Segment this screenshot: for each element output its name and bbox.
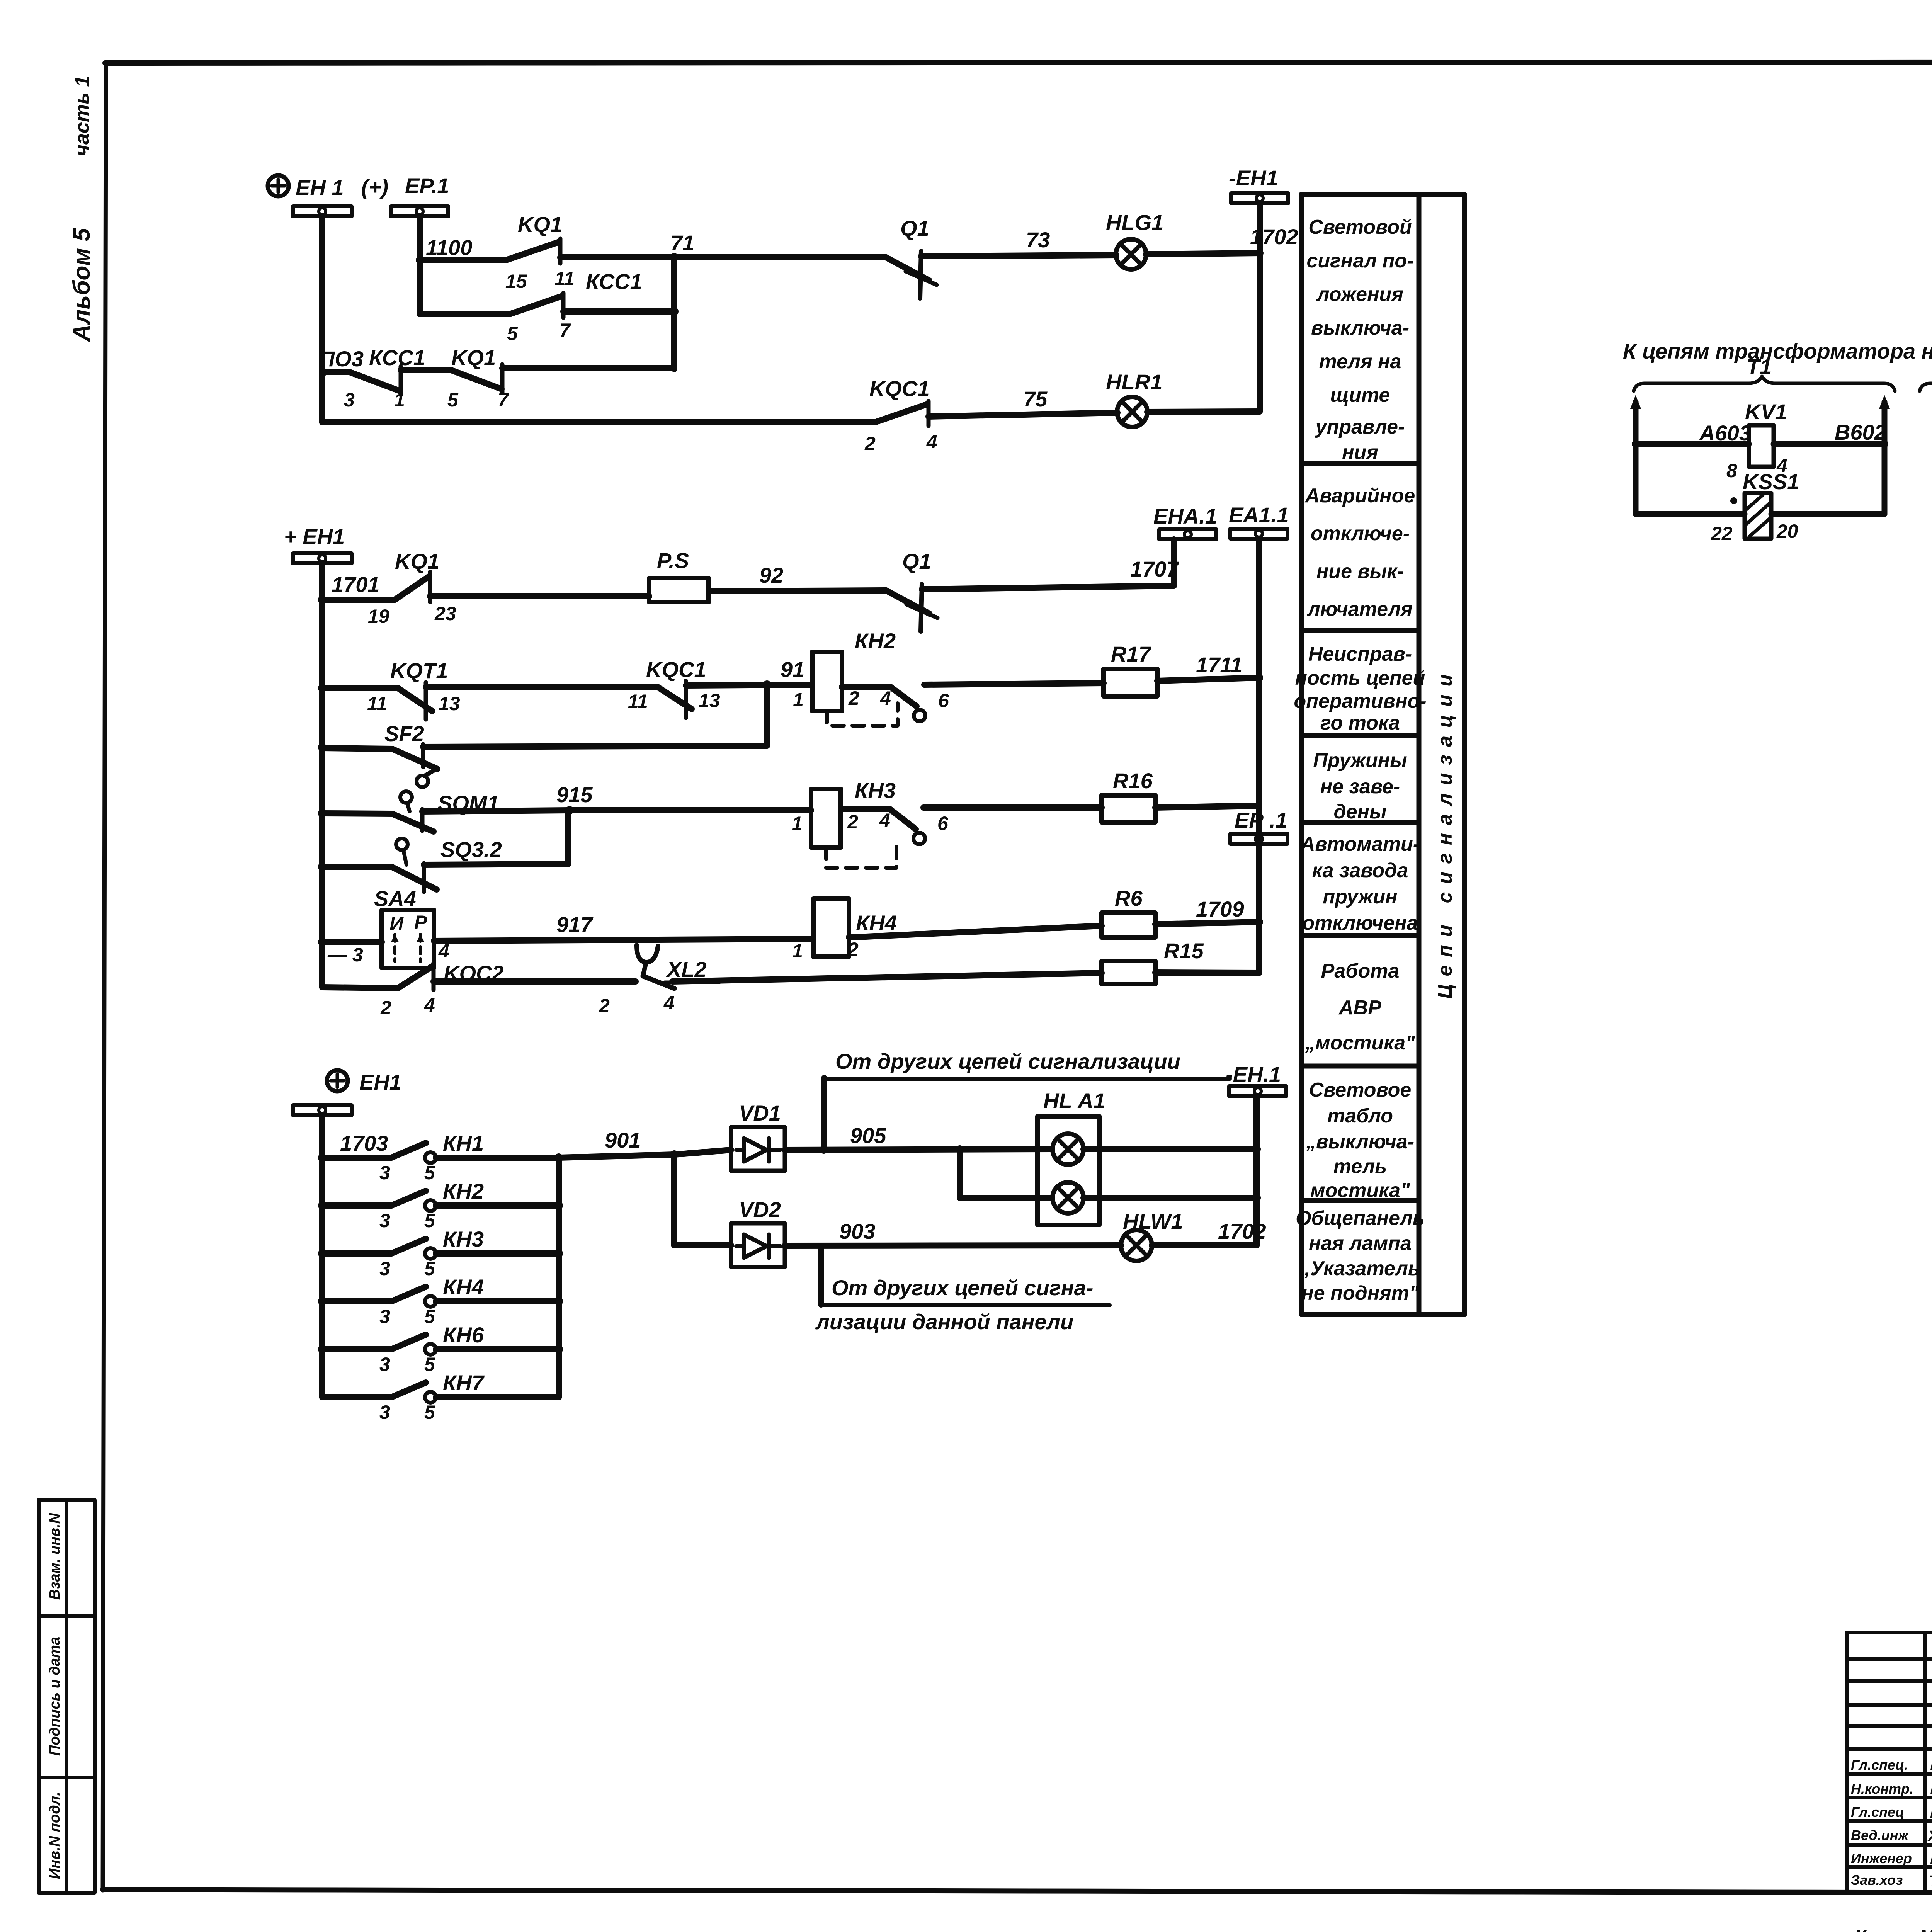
breaker contact SF2 bbox=[384, 721, 437, 787]
svg-text:22: 22 bbox=[1711, 523, 1733, 544]
svg-text:5: 5 bbox=[447, 389, 459, 411]
terminal EP.1 (plus) bbox=[361, 173, 449, 199]
contact KQ1 (19-23) rowA bbox=[368, 549, 456, 627]
node rowD left bbox=[318, 809, 327, 818]
svg-text:23: 23 bbox=[434, 603, 456, 624]
wire row1 to node 71 bbox=[560, 254, 674, 260]
svg-text:KQT1: KQT1 bbox=[390, 658, 448, 683]
svg-text:И: И bbox=[389, 913, 404, 935]
svg-text:Р: Р bbox=[414, 912, 427, 933]
svg-text:3: 3 bbox=[379, 1306, 390, 1327]
node signature table names bbox=[1927, 1756, 1932, 1889]
busbar -EH1 bbox=[1229, 166, 1288, 203]
svg-text:KQ1: KQ1 bbox=[395, 549, 439, 573]
svg-text:лизации данной панели: лизации данной панели bbox=[815, 1310, 1073, 1334]
wire left vertical bottom section bbox=[319, 1115, 325, 1397]
svg-text:KQC1: KQC1 bbox=[869, 376, 930, 401]
relay coil KH3 bbox=[792, 778, 896, 847]
svg-text:KQ1: KQ1 bbox=[451, 345, 496, 370]
svg-text:Вед.инж: Вед.инж bbox=[1851, 1827, 1909, 1843]
wire rowC to node91 bbox=[423, 685, 767, 747]
node: cell text 4 springs bbox=[1313, 749, 1407, 823]
svg-text:КСС1: КСС1 bbox=[369, 345, 425, 370]
lamp box HLA1 bbox=[1037, 1088, 1105, 1225]
terminal EH1 bottom (plus) bbox=[327, 1070, 401, 1094]
svg-text:„мостика": „мостика" bbox=[1305, 1032, 1415, 1054]
node: cell text 3 dc fault bbox=[1294, 643, 1426, 734]
svg-text:КН7: КН7 bbox=[443, 1371, 485, 1395]
svg-text:Хрупчикова: Хрупчикова bbox=[1927, 1828, 1932, 1844]
contact KH2 (4-6) bbox=[880, 687, 949, 721]
wire 903 bbox=[785, 1219, 1121, 1304]
wire right vertical -EH1 bbox=[1257, 203, 1263, 412]
svg-text:пружин: пружин bbox=[1323, 886, 1397, 908]
svg-text:VD2: VD2 bbox=[739, 1197, 781, 1222]
lamp HLA1 upper bbox=[1053, 1134, 1083, 1165]
svg-text:КСС1: КСС1 bbox=[586, 269, 642, 294]
relay coil KH4 bbox=[792, 899, 897, 962]
svg-text:Аварийное: Аварийное bbox=[1304, 485, 1415, 507]
svg-text:1: 1 bbox=[394, 389, 405, 411]
svg-text:2: 2 bbox=[847, 811, 858, 833]
note: header to voltage transformer circuits bbox=[1623, 328, 1932, 363]
svg-text:3: 3 bbox=[379, 1258, 390, 1279]
svg-text:7: 7 bbox=[498, 389, 509, 411]
wire rowG mid bbox=[434, 978, 636, 985]
pushbutton KH1 bbox=[322, 1131, 559, 1184]
wire T1 top right bbox=[1774, 420, 1888, 448]
wire 1709 bbox=[1155, 897, 1263, 926]
wire vertical node71 down bbox=[671, 257, 677, 369]
svg-text:1: 1 bbox=[792, 813, 803, 834]
svg-text:АВР: АВР bbox=[1338, 997, 1381, 1019]
busbar EHA.1 bbox=[1153, 504, 1217, 539]
svg-text:(+): (+) bbox=[361, 175, 388, 199]
drawing frame bottom border bbox=[103, 1889, 1932, 1894]
note: from other signal circuits bbox=[823, 1049, 1230, 1079]
svg-text:Цепи сигнализации: Цепи сигнализации bbox=[1434, 674, 1456, 999]
svg-text:VD1: VD1 bbox=[739, 1101, 781, 1125]
wire 73 bbox=[921, 228, 1116, 256]
svg-text:13: 13 bbox=[439, 693, 460, 714]
svg-text:R15: R15 bbox=[1164, 939, 1204, 963]
svg-text:KQ1: KQ1 bbox=[518, 212, 562, 236]
svg-text:ЕНА.1: ЕНА.1 bbox=[1153, 504, 1217, 528]
wire collector vertical bbox=[556, 1158, 562, 1397]
wire T1 top bbox=[1636, 441, 1749, 447]
svg-text:выключа-: выключа- bbox=[1311, 317, 1409, 339]
svg-text:ние вык-: ние вык- bbox=[1316, 560, 1404, 583]
svg-text:ЕА1.1: ЕА1.1 bbox=[1229, 503, 1289, 527]
travel switch SQM1 bbox=[392, 791, 499, 832]
busbar +EH1 bbox=[293, 553, 352, 563]
wire node71 to Q1 bbox=[674, 254, 886, 260]
node: cell text 6 AVR work bbox=[1305, 960, 1415, 1054]
terminal EH1 (plus) bbox=[268, 175, 344, 200]
busbar EH1 bbox=[293, 206, 352, 216]
svg-text:1702: 1702 bbox=[1218, 1219, 1266, 1243]
svg-text:сигнал по-: сигнал по- bbox=[1306, 250, 1413, 272]
wire row4 long bbox=[322, 419, 875, 425]
svg-text:HLR1: HLR1 bbox=[1106, 370, 1162, 394]
svg-text:Работа: Работа bbox=[1321, 960, 1400, 982]
wire T1 bottom bbox=[1636, 511, 1745, 517]
wire rowG right bbox=[672, 973, 1102, 981]
busbar EH1 bottom bbox=[293, 1105, 352, 1115]
svg-text:КН2: КН2 bbox=[855, 629, 896, 653]
drawing frame left border bbox=[103, 63, 106, 1890]
svg-text:Инв.N подл.: Инв.N подл. bbox=[47, 1792, 63, 1879]
svg-text:ПО3: ПО3 bbox=[319, 347, 364, 371]
mechanical link KH2 dashed bbox=[827, 703, 898, 726]
svg-text:От других цепей сигнализации: От других цепей сигнализации bbox=[835, 1049, 1180, 1073]
svg-text:Иванова: Иванова bbox=[1930, 1849, 1932, 1867]
node T1 group brace bbox=[1634, 354, 1895, 391]
wire 75 bbox=[929, 387, 1117, 417]
svg-text:20: 20 bbox=[1776, 520, 1798, 542]
svg-text:— 3: — 3 bbox=[327, 944, 363, 966]
wire lamp1 out bbox=[1083, 1145, 1261, 1153]
resistor R16 bbox=[1102, 769, 1155, 822]
node rowB left bbox=[318, 684, 327, 692]
svg-text:1703: 1703 bbox=[340, 1131, 388, 1155]
svg-text:Световое: Световое bbox=[1309, 1079, 1412, 1101]
svg-text:От других цепей сигна-: От других цепей сигна- bbox=[832, 1276, 1093, 1300]
svg-text:4: 4 bbox=[926, 431, 937, 452]
wire 905 bbox=[785, 1123, 1051, 1154]
svg-text:„выключа-: „выключа- bbox=[1306, 1131, 1414, 1153]
node: cell text 2 emergency trip bbox=[1304, 485, 1415, 621]
wire row3 to vertical bbox=[502, 365, 674, 371]
svg-text:5: 5 bbox=[424, 1306, 435, 1327]
node rowE left bbox=[318, 862, 327, 871]
svg-text:Автомати-: Автомати- bbox=[1300, 833, 1420, 855]
wire row2 from 1100 bbox=[420, 260, 510, 314]
svg-text:2: 2 bbox=[864, 433, 876, 454]
svg-text:KQC1: KQC1 bbox=[646, 657, 706, 682]
svg-text:ЕР.1: ЕР.1 bbox=[405, 173, 449, 198]
relay coil KV1 bbox=[1699, 400, 1787, 481]
wire rowD to EA1.1 vertical bbox=[1155, 806, 1259, 808]
key switch SA4 bbox=[327, 886, 449, 968]
svg-text:R16: R16 bbox=[1113, 769, 1153, 793]
lamp HLA1 lower bbox=[1053, 1182, 1083, 1213]
svg-text:ЕН1: ЕН1 bbox=[359, 1070, 401, 1094]
node T2 group brace bbox=[1920, 352, 1932, 391]
wire rowB start bbox=[322, 685, 398, 691]
svg-text:К цепям трансформатора напряже: К цепям трансформатора напряжения на вво… bbox=[1623, 339, 1932, 363]
wire 92 bbox=[709, 563, 886, 591]
svg-text:2: 2 bbox=[380, 997, 391, 1019]
svg-text:1711: 1711 bbox=[1196, 653, 1242, 677]
relay coil KH2 bbox=[793, 629, 896, 711]
wire lamp2 out bbox=[1083, 1194, 1261, 1202]
svg-text:8: 8 bbox=[1726, 460, 1737, 481]
svg-text:3: 3 bbox=[379, 1354, 390, 1375]
svg-text:Н.контр.: Н.контр. bbox=[1851, 1781, 1913, 1797]
resistor R6 bbox=[1102, 886, 1155, 937]
wire row3 mid bbox=[401, 367, 451, 373]
svg-text:мостика": мостика" bbox=[1310, 1179, 1410, 1202]
relay KSS1 left hatched bbox=[1711, 469, 1799, 544]
wire rowD to node 915 bbox=[422, 810, 570, 811]
svg-text:2: 2 bbox=[599, 995, 610, 1017]
busbar -EH.1 bottom bbox=[1226, 1062, 1286, 1096]
svg-text:11: 11 bbox=[628, 690, 648, 712]
svg-text:Т1: Т1 bbox=[1747, 354, 1772, 379]
wire rowF right bbox=[849, 926, 1102, 937]
svg-text:часть 1: часть 1 bbox=[71, 76, 94, 156]
node signature table roles bbox=[1851, 1757, 1913, 1888]
pushbutton KH3 bbox=[318, 1227, 559, 1279]
wire 1702 row1 bbox=[1146, 224, 1298, 254]
wire down to VD2 bbox=[671, 1155, 677, 1245]
svg-text:917: 917 bbox=[556, 912, 594, 937]
svg-text:71: 71 bbox=[670, 231, 694, 255]
svg-text:5: 5 bbox=[424, 1354, 435, 1375]
pushbutton KH7 bbox=[322, 1371, 559, 1423]
svg-text:3: 3 bbox=[379, 1401, 390, 1423]
svg-text:Взам. инв.N: Взам. инв.N bbox=[47, 1512, 63, 1600]
connector XL2 bbox=[599, 945, 719, 1017]
svg-text:75: 75 bbox=[1023, 387, 1048, 411]
contact KH3 (4-6) bbox=[879, 809, 949, 844]
contact KQC1 (2-4) row4 bbox=[864, 376, 937, 454]
svg-text:13: 13 bbox=[699, 690, 720, 711]
node 1701 bbox=[318, 572, 380, 604]
wire rowF start bbox=[322, 939, 382, 945]
svg-text:А603: А603 bbox=[1699, 421, 1751, 445]
svg-text:управле-: управле- bbox=[1315, 416, 1405, 438]
svg-text:903: 903 bbox=[839, 1219, 875, 1243]
svg-text:4: 4 bbox=[424, 994, 435, 1016]
svg-text:XL2: XL2 bbox=[666, 957, 707, 981]
svg-text:не поднят": не поднят" bbox=[1301, 1282, 1419, 1304]
node rowC left bbox=[318, 743, 327, 752]
wire rowE to node 915 bbox=[424, 810, 568, 865]
wire row4 to -EH1 bbox=[1147, 412, 1260, 412]
svg-text:4: 4 bbox=[879, 810, 890, 831]
node: cell text 7 light board bbox=[1306, 1079, 1414, 1202]
node 1100 bbox=[416, 235, 472, 264]
svg-text:не заве-: не заве- bbox=[1320, 776, 1400, 798]
wire row2 to vertical bbox=[563, 308, 674, 315]
svg-text:91: 91 bbox=[781, 657, 804, 682]
svg-text:2: 2 bbox=[847, 939, 859, 960]
svg-text:ЕН 1: ЕН 1 bbox=[296, 175, 344, 200]
svg-text:5: 5 bbox=[424, 1258, 435, 1279]
svg-text:КН1: КН1 bbox=[443, 1131, 484, 1155]
svg-text:HLW1: HLW1 bbox=[1123, 1209, 1183, 1233]
wire left vertical middle section bbox=[319, 563, 325, 987]
svg-text:1100: 1100 bbox=[426, 235, 472, 260]
signal table outer box bbox=[1301, 194, 1464, 1315]
svg-text:табло: табло bbox=[1327, 1105, 1393, 1127]
svg-text:Пружины: Пружины bbox=[1313, 749, 1407, 772]
node 915 bbox=[556, 782, 593, 815]
svg-text:915: 915 bbox=[556, 782, 593, 807]
contact KCC1 (3-1) row3 bbox=[344, 345, 425, 411]
wire EH1 left vertical bbox=[322, 216, 875, 422]
node 91 bbox=[763, 657, 804, 689]
lamp HLG1 bbox=[1106, 210, 1163, 269]
svg-text:2: 2 bbox=[848, 687, 859, 709]
svg-text:4: 4 bbox=[880, 687, 891, 709]
breaker contact Q1 row1 bbox=[886, 216, 937, 298]
svg-text:11: 11 bbox=[554, 268, 575, 289]
wire rowD to KH3 bbox=[570, 807, 811, 813]
busbar EP.1 bbox=[391, 206, 448, 216]
wire rowB right bbox=[924, 683, 1104, 685]
svg-text:7: 7 bbox=[560, 320, 571, 341]
svg-text:ложения: ложения bbox=[1316, 283, 1403, 306]
svg-text:Альбом 5: Альбом 5 bbox=[68, 227, 95, 342]
wire EP.1 down to 1100 bbox=[420, 216, 506, 260]
svg-text:KSS1: KSS1 bbox=[1743, 469, 1799, 494]
svg-text:Никитин: Никитин bbox=[1930, 1756, 1932, 1774]
wire rowA to RS bbox=[430, 593, 649, 599]
svg-text:5: 5 bbox=[424, 1401, 435, 1423]
svg-text:го тока: го тока bbox=[1320, 712, 1400, 734]
lamp HLW1 bbox=[1121, 1209, 1183, 1261]
svg-text:3: 3 bbox=[344, 389, 355, 411]
pushbutton KH6 bbox=[318, 1323, 559, 1375]
resistor R17 bbox=[1104, 642, 1157, 696]
resistor RS bbox=[649, 548, 709, 602]
breaker contact Q1 rowA bbox=[886, 549, 937, 631]
svg-text:Инженер: Инженер bbox=[1851, 1850, 1912, 1866]
svg-text:3: 3 bbox=[379, 1210, 390, 1231]
pushbutton KH2 bbox=[318, 1179, 559, 1231]
travel switch SQ3.2 bbox=[391, 837, 502, 892]
svg-text:+ ЕН1: + ЕН1 bbox=[284, 524, 345, 549]
svg-text:ЕР .1: ЕР .1 bbox=[1235, 808, 1287, 832]
note: from other circuits of this panel bbox=[815, 1276, 1110, 1334]
mechanical link KH3 dashed bbox=[826, 839, 896, 868]
svg-text:Тимофеева: Тимофеева bbox=[1929, 1873, 1932, 1889]
svg-text:ная лампа: ная лампа bbox=[1309, 1232, 1412, 1255]
wire 901 bbox=[559, 1128, 679, 1159]
svg-text:ка завода: ка завода bbox=[1312, 859, 1408, 882]
svg-text:6: 6 bbox=[938, 690, 949, 711]
svg-text:Общепанель: Общепанель bbox=[1296, 1207, 1425, 1230]
diode VD1 bbox=[731, 1101, 785, 1171]
drawing frame top border bbox=[105, 62, 1932, 63]
svg-text:Копиз. Молл: Копиз. Молл bbox=[1855, 1927, 1932, 1932]
contact KQC1 (11-13) rowB bbox=[628, 657, 720, 718]
svg-text:901: 901 bbox=[605, 1128, 641, 1152]
svg-text:В602: В602 bbox=[1835, 420, 1886, 444]
svg-text:5: 5 bbox=[424, 1162, 435, 1184]
svg-text:лючателя: лючателя bbox=[1306, 598, 1412, 621]
terminal +EH1 bbox=[284, 524, 345, 549]
wire rowD right bbox=[923, 804, 1102, 811]
wire rowE start bbox=[322, 864, 391, 870]
svg-text:15: 15 bbox=[505, 270, 527, 292]
contact KCC1 (5-7) row2 bbox=[507, 269, 642, 344]
wire rowB mid bbox=[426, 684, 658, 690]
busbar EP.1 right bbox=[1230, 808, 1287, 844]
svg-text:Световой: Световой bbox=[1308, 216, 1412, 238]
wire T1 left vertical with arrow bbox=[1630, 395, 1641, 514]
svg-text:3: 3 bbox=[379, 1162, 390, 1184]
wire R15 to EA1.1 vertical bbox=[1155, 973, 1259, 973]
svg-text:отключена: отключена bbox=[1302, 912, 1418, 934]
svg-text:КН3: КН3 bbox=[443, 1227, 484, 1251]
svg-text:HLG1: HLG1 bbox=[1106, 210, 1163, 235]
contact KQT1 (11-13) rowB bbox=[367, 658, 460, 719]
svg-text:1707: 1707 bbox=[1130, 557, 1179, 581]
svg-text:тель: тель bbox=[1333, 1155, 1387, 1178]
side label: album text bbox=[68, 76, 95, 342]
node PO3 bbox=[319, 347, 364, 376]
svg-text:теля на: теля на bbox=[1319, 350, 1401, 373]
svg-text:Горелик: Горелик bbox=[1930, 1803, 1932, 1821]
svg-text:HL А1: HL А1 bbox=[1043, 1088, 1105, 1113]
contact KQC2 (2-4) rowG bbox=[380, 961, 504, 1019]
node: cell text 8 panel lamp bbox=[1296, 1207, 1425, 1304]
wire KH3 out bbox=[841, 806, 890, 812]
svg-text:1709: 1709 bbox=[1196, 897, 1244, 921]
svg-text:дены: дены bbox=[1334, 801, 1387, 823]
svg-text:отключе-: отключе- bbox=[1311, 522, 1410, 545]
pushbutton KH4 bbox=[318, 1275, 559, 1327]
svg-text:КН3: КН3 bbox=[855, 778, 896, 803]
svg-text:92: 92 bbox=[759, 563, 783, 587]
wire rowD start bbox=[322, 813, 392, 814]
resistor R15 bbox=[1102, 939, 1204, 984]
svg-text:-ЕН1: -ЕН1 bbox=[1229, 166, 1278, 190]
svg-text:-ЕН.1: -ЕН.1 bbox=[1226, 1062, 1281, 1087]
wire right vertical -EH.1 bbox=[1253, 1096, 1260, 1245]
svg-text:4: 4 bbox=[663, 992, 675, 1014]
node 1703 bbox=[318, 1131, 388, 1162]
svg-text:КН2: КН2 bbox=[443, 1179, 484, 1203]
busbar EA1.1 bbox=[1229, 503, 1289, 539]
svg-text:Q1: Q1 bbox=[902, 549, 931, 573]
wire 1711 bbox=[1157, 653, 1263, 682]
node rowF left bbox=[318, 938, 327, 946]
svg-text:КН4: КН4 bbox=[856, 911, 897, 935]
svg-text:73: 73 bbox=[1026, 228, 1050, 252]
contact KQ1 (5-7) row3 bbox=[447, 345, 509, 411]
svg-text:KV1: KV1 bbox=[1745, 400, 1787, 424]
svg-text:1701: 1701 bbox=[332, 572, 380, 597]
svg-text:КН4: КН4 bbox=[443, 1275, 484, 1299]
svg-text:SA4: SA4 bbox=[374, 886, 416, 911]
svg-text:1: 1 bbox=[792, 940, 803, 962]
node 71 bbox=[670, 231, 694, 262]
svg-text:R6: R6 bbox=[1115, 886, 1143, 910]
wire KH2 out bbox=[842, 684, 891, 690]
diode VD2 bbox=[731, 1197, 785, 1267]
svg-text:11: 11 bbox=[367, 693, 387, 714]
node: cell text 1 light signal bbox=[1306, 216, 1413, 464]
bottom-left stamp box bbox=[39, 1500, 95, 1893]
svg-text:Зав.хоз: Зав.хоз bbox=[1851, 1872, 1903, 1888]
svg-text:Q1: Q1 bbox=[900, 216, 929, 240]
contact KQ1 (15-11) row1 bbox=[505, 212, 575, 292]
svg-text:КН6: КН6 bbox=[443, 1323, 484, 1347]
svg-text:щите: щите bbox=[1330, 384, 1390, 406]
bottom-left stamp rotated labels bbox=[47, 1512, 63, 1879]
svg-text:1: 1 bbox=[793, 689, 804, 711]
wire T1 right vertical with arrow bbox=[1879, 395, 1890, 514]
svg-text:ность цепей: ность цепей bbox=[1295, 667, 1425, 689]
wire rowG start bbox=[322, 987, 398, 988]
svg-text:Р.S: Р.S bbox=[657, 548, 689, 573]
node: cell text 5 spring automation bbox=[1300, 833, 1420, 934]
